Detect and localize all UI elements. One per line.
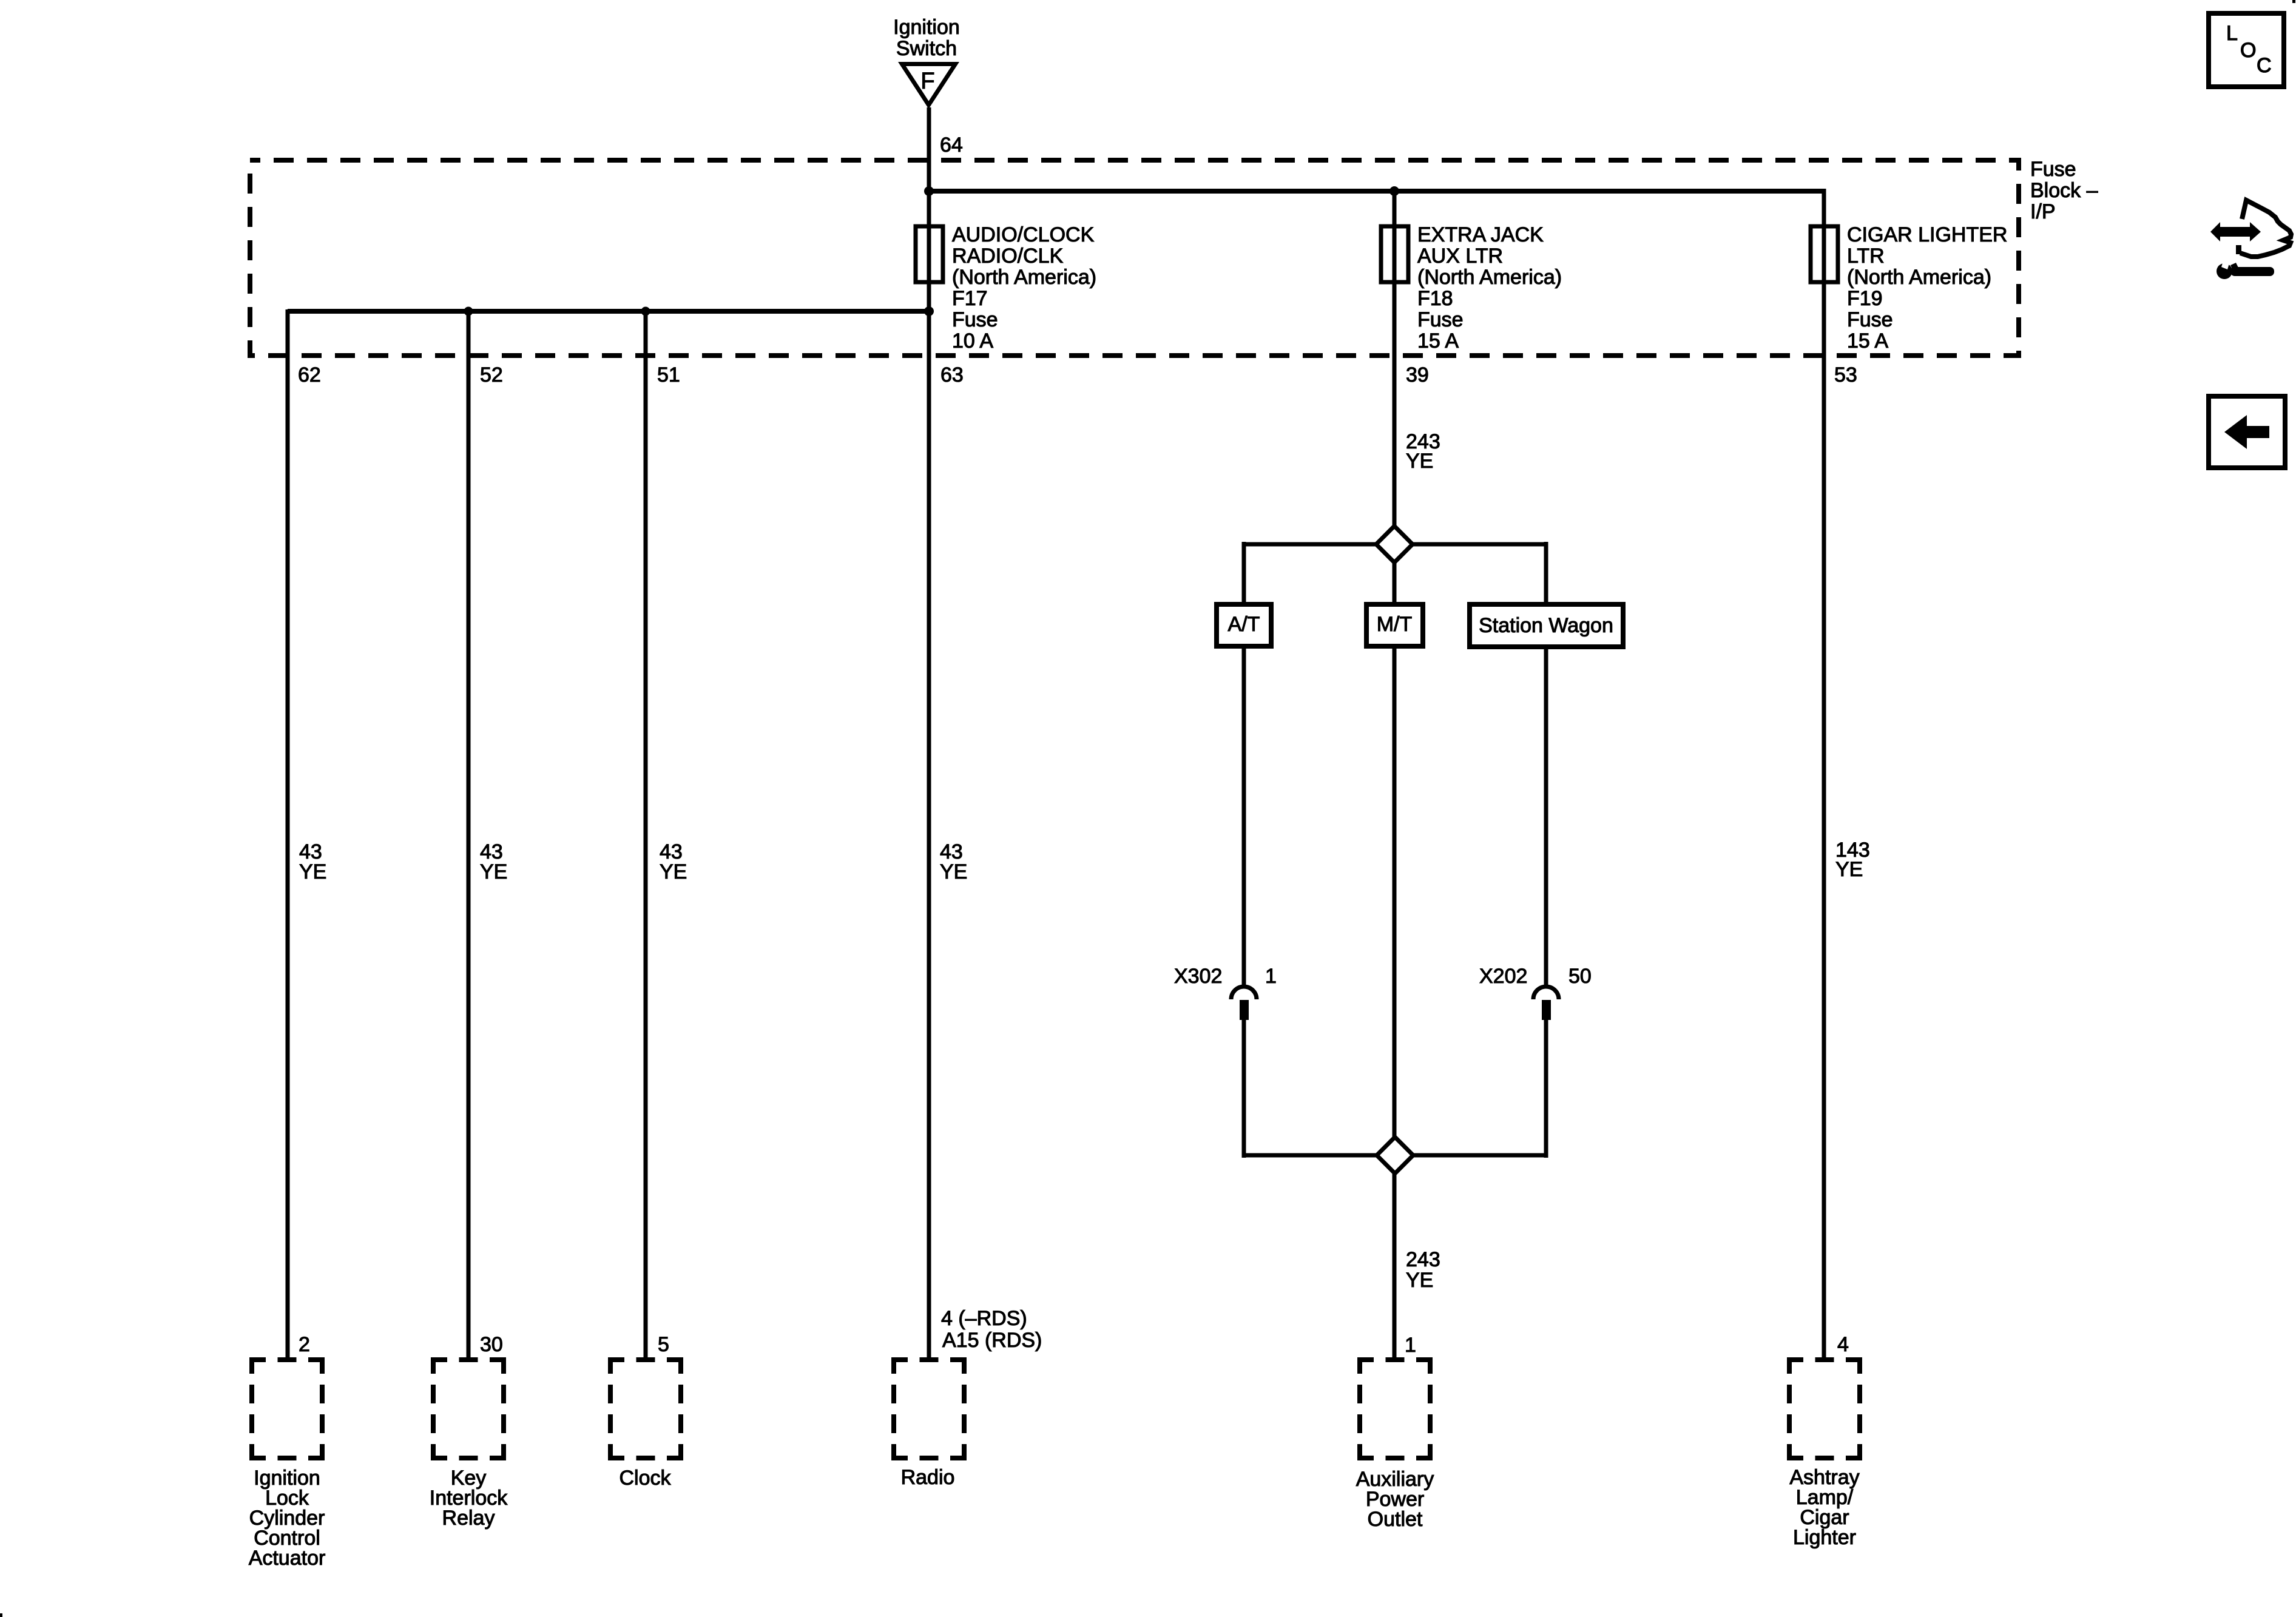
svg-text:4: 4 <box>1837 1333 1849 1356</box>
svg-text:1: 1 <box>1265 965 1277 988</box>
svg-text:4 (–RDS): 4 (–RDS) <box>941 1307 1027 1330</box>
svg-text:15 A: 15 A <box>1847 329 1888 353</box>
svg-text:F19: F19 <box>1847 287 1883 310</box>
svg-text:Radio: Radio <box>901 1466 955 1489</box>
svg-text:Fuse: Fuse <box>2030 158 2076 181</box>
svg-text:Fuse: Fuse <box>952 308 998 331</box>
svg-text:YE: YE <box>660 860 687 883</box>
svg-text:Ignition: Ignition <box>893 16 960 39</box>
svg-text:AUDIO/CLOCK: AUDIO/CLOCK <box>952 223 1095 246</box>
svg-text:51: 51 <box>657 363 680 387</box>
svg-text:63: 63 <box>940 363 964 387</box>
svg-text:YE: YE <box>480 860 507 883</box>
svg-text:Fuse: Fuse <box>1417 308 1464 331</box>
svg-text:Station Wagon: Station Wagon <box>1479 614 1613 637</box>
svg-text:YE: YE <box>940 860 967 883</box>
svg-text:A15 (RDS): A15 (RDS) <box>942 1329 1042 1352</box>
svg-text:X202: X202 <box>1479 965 1527 988</box>
svg-text:64: 64 <box>940 133 963 157</box>
svg-text:Clock: Clock <box>619 1467 671 1490</box>
svg-text:Block –: Block – <box>2030 179 2098 202</box>
svg-text:Lighter: Lighter <box>1793 1526 1856 1549</box>
svg-text:C: C <box>2257 54 2272 77</box>
svg-text:YE: YE <box>1406 1269 1433 1292</box>
svg-text:50: 50 <box>1568 965 1592 988</box>
svg-text:Actuator: Actuator <box>249 1547 326 1570</box>
svg-text:(North America): (North America) <box>1417 266 1562 289</box>
svg-text:Outlet: Outlet <box>1368 1508 1423 1531</box>
svg-text:2: 2 <box>299 1333 310 1356</box>
svg-text:52: 52 <box>480 363 503 387</box>
svg-text:AUX LTR: AUX LTR <box>1417 245 1503 268</box>
svg-text:A/T: A/T <box>1228 613 1260 636</box>
svg-text:243: 243 <box>1406 1248 1440 1271</box>
svg-text:10 A: 10 A <box>952 329 993 353</box>
svg-text:30: 30 <box>480 1333 503 1356</box>
svg-text:Relay: Relay <box>442 1507 495 1530</box>
svg-text:LTR: LTR <box>1847 245 1885 268</box>
svg-text:CIGAR LIGHTER: CIGAR LIGHTER <box>1847 223 2007 246</box>
svg-text:X302: X302 <box>1174 965 1222 988</box>
svg-text:(North America): (North America) <box>952 266 1096 289</box>
svg-text:YE: YE <box>1406 450 1433 473</box>
svg-text:O: O <box>2240 39 2256 62</box>
svg-text:Fuse: Fuse <box>1847 308 1893 331</box>
svg-text:39: 39 <box>1406 363 1429 387</box>
svg-text:RADIO/CLK: RADIO/CLK <box>952 245 1064 268</box>
svg-text:F17: F17 <box>952 287 988 310</box>
svg-text:L: L <box>2226 22 2238 45</box>
svg-text:15 A: 15 A <box>1417 329 1459 353</box>
svg-text:(North America): (North America) <box>1847 266 1991 289</box>
svg-text:M/T: M/T <box>1377 613 1413 636</box>
svg-text:YE: YE <box>1835 858 1863 881</box>
svg-text:1: 1 <box>1405 1334 1416 1357</box>
svg-text:5: 5 <box>658 1333 669 1356</box>
svg-text:I/P: I/P <box>2030 200 2056 223</box>
svg-text:62: 62 <box>298 363 321 387</box>
svg-text:Switch: Switch <box>896 37 957 60</box>
svg-text:F18: F18 <box>1417 287 1453 310</box>
svg-text:EXTRA JACK: EXTRA JACK <box>1417 223 1544 246</box>
svg-text:53: 53 <box>1834 363 1857 387</box>
svg-text:YE: YE <box>299 860 326 883</box>
svg-text:F: F <box>920 69 934 94</box>
